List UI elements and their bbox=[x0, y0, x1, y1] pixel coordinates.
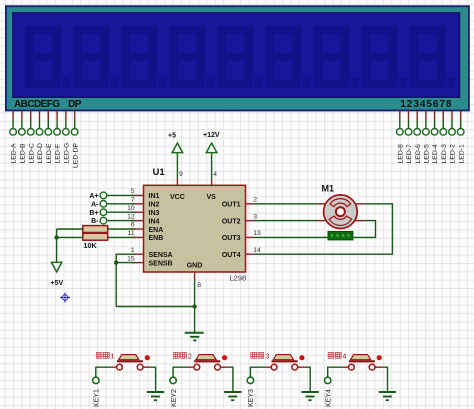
terminal KEY2 bbox=[170, 377, 176, 383]
svg-text:7: 7 bbox=[131, 197, 135, 204]
label LED-3 bbox=[441, 144, 448, 163]
wire OUT1 to motor bbox=[254, 203, 318, 205]
U1 pin 5 (IN1) stub bbox=[132, 194, 144, 196]
svg-text:LED-E: LED-E bbox=[46, 143, 53, 163]
label LED-4 bbox=[432, 144, 439, 163]
button 1 left lead bbox=[111, 366, 117, 368]
button 3 left contact bbox=[271, 364, 277, 370]
wire button 1 to KEY1 bbox=[96, 367, 111, 377]
wire to terminal LED-DP bbox=[74, 120, 76, 129]
label LED-B bbox=[20, 143, 27, 163]
display digit 6 (all segments) bbox=[266, 26, 301, 89]
wire to terminal LED-F bbox=[56, 120, 58, 129]
label LED-C bbox=[28, 143, 35, 163]
wire B- to U1 bbox=[107, 220, 136, 222]
button 2 label (按键2) bbox=[174, 352, 180, 358]
display segment pin LED-B (pin stub) bbox=[21, 111, 23, 120]
label LED-7 bbox=[406, 144, 413, 163]
button 1 base bar bbox=[117, 360, 143, 362]
terminal LED-4 bbox=[431, 129, 438, 136]
button 4 right contact bbox=[369, 364, 375, 370]
svg-text:12345678: 12345678 bbox=[400, 99, 452, 110]
wire to terminal LED-6 bbox=[416, 120, 418, 129]
button 1 cap bbox=[119, 355, 139, 360]
button 3 cap bbox=[273, 355, 293, 360]
wire OUT2 to motor bbox=[254, 220, 318, 222]
wire to terminal LED-8 bbox=[399, 120, 401, 129]
wire resistor lower to +5V bbox=[57, 236, 83, 238]
svg-text:LED-B: LED-B bbox=[20, 143, 27, 163]
button 2 left lead bbox=[189, 366, 195, 368]
display digit 5 decimal point bbox=[255, 78, 263, 88]
svg-text:13: 13 bbox=[253, 230, 261, 237]
button 2 cap bbox=[196, 355, 216, 360]
svg-text:LED-4: LED-4 bbox=[432, 144, 439, 163]
svg-text:4: 4 bbox=[343, 353, 347, 360]
display digit pin LED-1 (pin stub) bbox=[460, 111, 462, 120]
terminal KEY1 bbox=[93, 377, 99, 383]
display digit pin LED-6 (pin stub) bbox=[416, 111, 418, 120]
wire to terminal LED-A bbox=[12, 120, 14, 129]
U1 pin 14 (OUT4) stub bbox=[246, 253, 254, 255]
svg-text:OUT4: OUT4 bbox=[222, 252, 241, 259]
display digit 5 (all segments) bbox=[218, 26, 253, 89]
svg-text:ABCDEFG: ABCDEFG bbox=[14, 99, 60, 110]
ground symbol (button 2) bbox=[224, 392, 241, 400]
svg-text:OUT1: OUT1 bbox=[222, 202, 241, 209]
button 3 base bar bbox=[272, 360, 298, 362]
display segment pin LED-DP (pin stub) bbox=[74, 111, 76, 120]
wire B+ to U1 bbox=[107, 211, 136, 213]
wire button 3 to KEY3 bbox=[250, 367, 265, 377]
wire to terminal LED-5 bbox=[425, 120, 427, 129]
svg-text:3: 3 bbox=[265, 353, 269, 360]
wire VCC to +5 rail bbox=[176, 153, 178, 179]
svg-text:LED-3: LED-3 bbox=[441, 144, 448, 163]
terminal LED-6 bbox=[414, 129, 421, 136]
ground symbol (button 4) bbox=[379, 392, 396, 400]
svg-text:+5: +5 bbox=[168, 133, 176, 140]
svg-text:DP: DP bbox=[68, 99, 82, 110]
svg-text:M1: M1 bbox=[322, 184, 335, 194]
svg-text:OUT2: OUT2 bbox=[222, 218, 241, 225]
U1 pin 13 (OUT3) stub bbox=[246, 236, 254, 238]
label KEY2 bbox=[171, 389, 178, 407]
U1 pin 1 (SENSA) stub bbox=[132, 253, 144, 255]
svg-text:SENSB: SENSB bbox=[149, 260, 173, 267]
junction at GND stem bbox=[192, 304, 196, 308]
svg-text:14: 14 bbox=[253, 247, 261, 254]
wire OUT3 to motor right-lower bbox=[254, 221, 376, 238]
svg-text:11: 11 bbox=[128, 230, 135, 237]
svg-text:GND: GND bbox=[187, 263, 203, 270]
origin marker (blue crosshair) bbox=[60, 293, 70, 303]
button 4 left contact bbox=[349, 364, 355, 370]
7-seg LED display module DS1 frame bbox=[6, 6, 469, 110]
svg-text:+12V: +12V bbox=[203, 132, 220, 139]
label LED-1 bbox=[458, 144, 465, 163]
ground symbol (button 3) bbox=[301, 392, 318, 400]
svg-text:VS: VS bbox=[207, 194, 217, 201]
wire button 1 to ground bbox=[150, 367, 155, 392]
button 3 right lead bbox=[298, 366, 305, 368]
label LED-F bbox=[55, 144, 62, 164]
svg-text:KEY3: KEY3 bbox=[248, 389, 255, 407]
svg-text:9: 9 bbox=[179, 171, 183, 178]
svg-text:LED-F: LED-F bbox=[55, 144, 62, 164]
svg-text:LED-C: LED-C bbox=[28, 143, 35, 163]
resistor R? lower 10K bbox=[83, 233, 108, 240]
svg-text:KEY2: KEY2 bbox=[171, 389, 178, 407]
button 1 actuator dot bbox=[145, 355, 150, 360]
U1 pin 15 (SENSB) stub bbox=[132, 262, 144, 264]
svg-text:10K: 10K bbox=[84, 241, 98, 250]
display digit 6 decimal point bbox=[303, 78, 311, 88]
wire button 4 to KEY4 bbox=[328, 367, 343, 377]
wire sense net down bbox=[115, 263, 117, 307]
label KEY4 bbox=[326, 389, 333, 407]
terminal LED-5 bbox=[423, 129, 430, 136]
motor pin stub right-lower bbox=[355, 220, 364, 222]
svg-text:15: 15 bbox=[127, 255, 135, 262]
label LED-6 bbox=[415, 144, 422, 163]
U1 pin 4 (VS) stub bbox=[211, 179, 213, 185]
svg-text:6: 6 bbox=[131, 222, 135, 229]
wire to terminal LED-E bbox=[47, 120, 49, 129]
wire VS to +12V rail bbox=[211, 153, 213, 179]
resistor R? upper 10K bbox=[83, 226, 108, 233]
label KEY3 bbox=[248, 389, 255, 407]
display digit 3 (all segments) bbox=[121, 26, 156, 89]
terminal B+ bbox=[100, 209, 107, 216]
U1 pin 9 (VCC) stub bbox=[176, 179, 178, 185]
display digit 3 decimal point bbox=[158, 78, 166, 88]
terminal LED-F bbox=[54, 129, 61, 136]
wire to terminal LED-G bbox=[65, 120, 67, 129]
display segment pin LED-E (pin stub) bbox=[47, 111, 49, 120]
button 2 right lead bbox=[220, 366, 227, 368]
button 1 right contact bbox=[137, 364, 143, 370]
label LED-D bbox=[37, 143, 44, 163]
button 4 base bar bbox=[349, 360, 375, 362]
display digit 8 decimal point bbox=[399, 78, 407, 88]
wire to terminal LED-B bbox=[21, 120, 23, 129]
button 4 actuator dot bbox=[377, 355, 382, 360]
terminal LED-8 bbox=[397, 129, 404, 136]
wire to terminal LED-7 bbox=[408, 120, 410, 129]
svg-text:A-: A- bbox=[91, 201, 99, 208]
wire to terminal LED-2 bbox=[451, 120, 453, 129]
terminal LED-E bbox=[45, 129, 52, 136]
wire A+ to U1 bbox=[107, 194, 136, 196]
wire to terminal LED-1 bbox=[460, 120, 462, 129]
svg-text:LED-2: LED-2 bbox=[450, 144, 457, 163]
svg-text:LED-5: LED-5 bbox=[424, 144, 431, 163]
display digit pin LED-2 (pin stub) bbox=[451, 111, 453, 120]
svg-text:LED-8: LED-8 bbox=[397, 144, 404, 163]
junction at resistor net bbox=[54, 235, 58, 239]
display digit pin LED-7 (pin stub) bbox=[408, 111, 410, 120]
wire ENB to resistor bbox=[108, 236, 135, 238]
display segment pin LED-F (pin stub) bbox=[56, 111, 58, 120]
svg-text:LED-1: LED-1 bbox=[458, 144, 465, 163]
label LED-8 bbox=[397, 144, 404, 163]
svg-text:L298: L298 bbox=[230, 274, 247, 283]
button 2 actuator dot bbox=[222, 355, 227, 360]
svg-text:4: 4 bbox=[213, 171, 217, 178]
button 3 actuator dot bbox=[299, 355, 304, 360]
U1 pin 10 (IN3) stub bbox=[132, 211, 144, 213]
svg-text:+5V: +5V bbox=[51, 280, 64, 287]
motor pin stub left-lower bbox=[318, 220, 327, 222]
svg-text:LED-DP: LED-DP bbox=[72, 143, 79, 168]
wire SENSB left bbox=[116, 262, 135, 264]
svg-text:10: 10 bbox=[127, 205, 135, 212]
motor pin stub right-upper bbox=[355, 203, 364, 205]
wire resistor upper to +5V bbox=[57, 228, 83, 230]
button 2 base bar bbox=[194, 360, 220, 362]
wire GND pin down bbox=[194, 280, 196, 332]
label KEY1 bbox=[94, 389, 101, 407]
display inner screen bbox=[13, 13, 460, 97]
terminal LED-D bbox=[36, 129, 43, 136]
display digit 2 decimal point bbox=[110, 78, 118, 88]
svg-text:12: 12 bbox=[127, 213, 135, 220]
svg-text:IN3: IN3 bbox=[149, 210, 160, 217]
junction SENSA/SENSB bbox=[114, 260, 118, 264]
wire SENSA left bbox=[116, 254, 135, 262]
display digit 4 decimal point bbox=[207, 78, 215, 88]
U1 pin 2 (OUT1) stub bbox=[246, 203, 254, 205]
wire button 2 to ground bbox=[228, 367, 233, 392]
display digit pin LED-4 (pin stub) bbox=[434, 111, 436, 120]
svg-text:1: 1 bbox=[131, 247, 135, 254]
U1 pin 3 (OUT2) stub bbox=[246, 220, 254, 222]
terminal LED-1 bbox=[457, 129, 464, 136]
U1 pin 7 (IN2) stub bbox=[132, 203, 144, 205]
wire +5V vertical bbox=[56, 229, 58, 262]
svg-text:ENB: ENB bbox=[149, 235, 164, 242]
display segment pin LED-C (pin stub) bbox=[30, 111, 32, 120]
button 1 right lead bbox=[143, 366, 150, 368]
motor bottom slot bbox=[329, 216, 351, 225]
wire to terminal LED-D bbox=[39, 120, 41, 129]
wire to terminal LED-4 bbox=[434, 120, 436, 129]
display digit 7 decimal point bbox=[351, 78, 359, 88]
power terminal +12V (up arrow) bbox=[206, 143, 217, 153]
terminal LED-G bbox=[63, 129, 70, 136]
wire button 4 to ground bbox=[382, 367, 387, 392]
terminal A- bbox=[100, 201, 107, 208]
svg-text:IN2: IN2 bbox=[149, 202, 160, 209]
terminal KEY4 bbox=[325, 377, 331, 383]
terminal LED-3 bbox=[440, 129, 447, 136]
button 4 right lead bbox=[375, 366, 382, 368]
svg-text:LED-A: LED-A bbox=[11, 143, 18, 163]
svg-text:LED-G: LED-G bbox=[64, 143, 71, 164]
svg-text:2: 2 bbox=[253, 197, 257, 204]
svg-text:IN4: IN4 bbox=[149, 218, 160, 225]
motor M1 body bbox=[324, 195, 358, 229]
wire to terminal LED-C bbox=[30, 120, 32, 129]
display segment pin LED-G (pin stub) bbox=[65, 111, 67, 120]
terminal B- bbox=[100, 217, 107, 224]
op-amp U1 body (L298 driver) bbox=[144, 185, 246, 272]
display digit 8 (all segments) bbox=[362, 26, 397, 89]
button 3 left lead bbox=[266, 366, 272, 368]
motor connector block bbox=[328, 232, 353, 240]
terminal LED-C bbox=[27, 129, 34, 136]
U1 pin 11 (ENB) stub bbox=[132, 236, 144, 238]
terminal LED-A bbox=[10, 129, 17, 136]
button 2 right contact bbox=[215, 364, 221, 370]
display digit 7 (all segments) bbox=[314, 26, 349, 89]
svg-text:LED-D: LED-D bbox=[37, 143, 44, 163]
svg-text:IN1: IN1 bbox=[149, 193, 160, 200]
terminal LED-DP bbox=[71, 129, 78, 136]
svg-text:KEY1: KEY1 bbox=[94, 389, 101, 407]
button 2 left contact bbox=[194, 364, 200, 370]
power terminal +5V (down arrow) bbox=[51, 262, 61, 271]
svg-text:B-: B- bbox=[91, 218, 99, 225]
button 1 label (按键1) bbox=[96, 352, 102, 358]
terminal A+ bbox=[100, 192, 107, 199]
label LED-G bbox=[64, 143, 71, 164]
button 3 right contact bbox=[292, 364, 298, 370]
wire button 3 to ground bbox=[305, 367, 310, 392]
display digit pin LED-5 (pin stub) bbox=[425, 111, 427, 120]
display segment pin LED-A (pin stub) bbox=[12, 111, 14, 120]
label LED-5 bbox=[424, 144, 431, 163]
label LED-E bbox=[46, 143, 53, 163]
svg-text:5: 5 bbox=[131, 188, 135, 195]
wire OUT4 to motor right-upper bbox=[254, 204, 393, 254]
button 3 label (按键3) bbox=[251, 352, 257, 358]
button 4 label (按键4) bbox=[328, 352, 334, 358]
label LED-A bbox=[11, 143, 18, 163]
svg-text:VCC: VCC bbox=[170, 194, 185, 201]
wire A- to U1 bbox=[107, 203, 136, 205]
ground symbol (U1 GND) bbox=[185, 333, 204, 341]
svg-text:SENSA: SENSA bbox=[149, 252, 173, 259]
svg-text:8: 8 bbox=[197, 282, 201, 289]
svg-text:B+: B+ bbox=[89, 210, 98, 217]
ground symbol (button 1) bbox=[147, 392, 164, 400]
terminal LED-B bbox=[19, 129, 26, 136]
svg-text:A+: A+ bbox=[89, 193, 98, 200]
display segment pin LED-D (pin stub) bbox=[39, 111, 41, 120]
display digit pin LED-3 (pin stub) bbox=[442, 111, 444, 120]
wire sense net to GND bbox=[116, 306, 194, 308]
button 4 left lead bbox=[343, 366, 349, 368]
svg-text:U1: U1 bbox=[153, 167, 166, 178]
display digit 4 (all segments) bbox=[170, 26, 205, 89]
svg-text:KEY4: KEY4 bbox=[326, 389, 333, 407]
label LED-DP bbox=[72, 143, 79, 168]
svg-text:2: 2 bbox=[188, 353, 192, 360]
svg-text:1: 1 bbox=[111, 353, 115, 360]
svg-text:LED-7: LED-7 bbox=[406, 144, 413, 163]
svg-text:OUT3: OUT3 bbox=[222, 235, 241, 242]
wire button 2 to KEY2 bbox=[173, 367, 188, 377]
svg-text:LED-6: LED-6 bbox=[415, 144, 422, 163]
button 1 left contact bbox=[117, 364, 123, 370]
U1 pin 12 (IN4) stub bbox=[132, 220, 144, 222]
button 4 cap bbox=[351, 355, 371, 360]
power terminal +5 (up arrow) bbox=[172, 143, 183, 153]
display digit 9 decimal point bbox=[447, 78, 455, 88]
svg-text:ENA: ENA bbox=[149, 227, 164, 234]
label LED-2 bbox=[450, 144, 457, 163]
terminal KEY3 bbox=[247, 377, 253, 383]
display digit 1 (all segments) bbox=[25, 26, 60, 89]
terminal LED-7 bbox=[405, 129, 412, 136]
display digit 9 (all segments) bbox=[410, 26, 445, 89]
U1 pin 6 (ENA) stub bbox=[132, 228, 144, 230]
terminal LED-2 bbox=[449, 129, 456, 136]
motor shaft hub bbox=[336, 207, 345, 216]
display digit pin LED-8 (pin stub) bbox=[399, 111, 401, 120]
motor pin stub left-upper bbox=[318, 203, 327, 205]
motor top slot bbox=[330, 199, 351, 207]
display digit 2 (all segments) bbox=[73, 26, 108, 89]
U1 pin 8 (GND) stub bbox=[194, 272, 196, 280]
display digit 1 decimal point bbox=[62, 78, 70, 88]
wire ENA to resistor bbox=[108, 228, 135, 230]
wire to terminal LED-3 bbox=[442, 120, 444, 129]
svg-text:3: 3 bbox=[253, 213, 257, 220]
